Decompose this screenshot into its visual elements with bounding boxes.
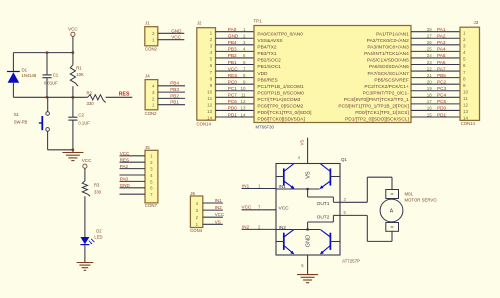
wire J6 IN2 — [203, 205, 223, 210]
node RES — [119, 92, 130, 98]
svg-text:A: A — [390, 209, 394, 215]
wire MCU-J3 PA4 pin 25 — [411, 47, 460, 52]
wire MCU-J3 PA5 pin 24 — [411, 53, 460, 58]
svg-text:PB3: PB3 — [228, 47, 237, 52]
svg-text:0.1UF: 0.1UF — [78, 121, 90, 126]
wire J2-MCU PB1 pin 6 — [216, 60, 255, 65]
svg-text:PC4/[INT0][PINT]TCK2/TP2_1: PC4/[INT0][PINT]TCK2/TP2_1 — [344, 97, 409, 103]
svg-text:12: 12 — [240, 99, 246, 104]
capacitor C1 0.01UF — [42, 53, 58, 98]
svg-text:PC4: PC4 — [437, 93, 447, 98]
wire R3 to LED — [84, 196, 86, 237]
svg-text:J4: J4 — [145, 74, 150, 79]
svg-text:IN2: IN2 — [242, 224, 250, 229]
svg-text:PA0/C0X/TP0_0/AN0: PA0/C0X/TP0_0/AN0 — [257, 31, 303, 37]
svg-text:R2: R2 — [87, 90, 93, 95]
switch S1 SW-PB — [14, 97, 73, 150]
svg-text:10K: 10K — [76, 72, 84, 77]
pin OUT2 (5) wire — [340, 210, 392, 242]
label VS inside — [306, 171, 312, 179]
connector J2 CON14 — [197, 21, 216, 127]
wire J2-MCU PC7 pin 11 — [216, 93, 255, 98]
svg-text:PC1/TP1B_1/SCOM1: PC1/TP1B_1/SCOM1 — [257, 84, 304, 90]
svg-text:PB1: PB1 — [228, 60, 237, 65]
svg-text:PD1/[TP2_0][SDO][SCK/SCL]: PD1/[TP2_0][SDO][SCK/SCL] — [345, 117, 409, 123]
wire CON7 pin 5 — [120, 177, 146, 182]
wire to RES — [106, 96, 133, 98]
svg-text:330: 330 — [94, 190, 102, 195]
svg-text:GND: GND — [120, 183, 131, 188]
transistor Q1b (top-right) — [320, 164, 340, 189]
ground (reset circuit) — [62, 153, 83, 161]
svg-text:D2: D2 — [96, 228, 102, 233]
svg-text:PA5/C1X/SDO/AN5: PA5/C1X/SDO/AN5 — [367, 58, 409, 64]
svg-text:12: 12 — [463, 103, 469, 108]
connector J6 CON4 — [190, 191, 203, 233]
svg-text:RES: RES — [119, 92, 130, 98]
svg-text:TP1: TP1 — [254, 18, 263, 23]
wire LED to ground — [84, 245, 86, 262]
wire J1 pin1 VCC — [158, 35, 185, 40]
svg-text:PA4/INT1/TCK1/AN4: PA4/INT1/TCK1/AN4 — [364, 51, 409, 57]
svg-text:CON7: CON7 — [145, 203, 158, 208]
svg-text:PA6/SDI/SDA/AN6: PA6/SDI/SDA/AN6 — [369, 64, 409, 70]
wire CON7 pin 1 — [120, 151, 146, 156]
pin OUT1 (3) wire — [340, 177, 392, 202]
svg-text:28: 28 — [427, 27, 433, 32]
wire top bus — [13, 52, 73, 54]
label IN2 inside — [279, 225, 287, 231]
svg-text:13: 13 — [207, 109, 213, 114]
svg-text:MT66F30: MT66F30 — [256, 125, 275, 130]
svg-text:12: 12 — [207, 103, 213, 108]
wire J2-MCU PB2 pin 5 — [216, 53, 255, 58]
svg-text:PB3: PB3 — [170, 87, 179, 92]
svg-text:PB4/TX2: PB4/TX2 — [257, 45, 277, 51]
svg-text:PA6: PA6 — [437, 60, 446, 65]
svg-text:MOTOR SERVO: MOTOR SERVO — [405, 198, 438, 203]
connector J1 CON2 — [145, 20, 158, 51]
svg-text:VDD: VDD — [257, 71, 268, 77]
pin GND (6) — [301, 255, 307, 274]
svg-text:22: 22 — [427, 66, 433, 71]
svg-text:M01: M01 — [405, 192, 414, 197]
svg-text:PD1: PD1 — [437, 112, 447, 117]
svg-text:18: 18 — [427, 93, 433, 98]
svg-text:PB2: PB2 — [170, 93, 179, 98]
svg-text:6: 6 — [463, 63, 466, 68]
svg-text:PD0: PD0 — [228, 106, 238, 111]
label OUT1 inside — [317, 201, 330, 207]
MCU TP1 MT66F30 — [254, 18, 412, 129]
wire J2-MCU PB4 pin 3 — [216, 40, 255, 45]
svg-text:17: 17 — [427, 99, 433, 104]
capacitor C2 0.1UF — [68, 97, 90, 152]
wire MCU-J3 PB5 pin 21 — [411, 73, 460, 78]
diode D1 1N4148 — [7, 53, 37, 98]
svg-text:CON2: CON2 — [145, 46, 158, 51]
wire collector join bottom — [276, 215, 340, 230]
svg-text:PC6/[TP0_0]/SCOM2: PC6/[TP0_0]/SCOM2 — [257, 104, 303, 110]
wire J2-MCU GND pin 2 — [216, 34, 255, 39]
svg-text:9: 9 — [210, 83, 213, 88]
power VCC (LED branch) — [82, 158, 92, 168]
svg-text:20: 20 — [427, 79, 433, 84]
wire MCU-J3 PC3 pin 19 — [411, 86, 460, 91]
svg-text:1N4148: 1N4148 — [22, 73, 37, 78]
svg-text:IN2: IN2 — [215, 205, 223, 210]
wire MCU-J3 PA7 pin 22 — [411, 66, 460, 71]
svg-text:LED: LED — [94, 234, 102, 239]
svg-text:VS: VS — [306, 171, 312, 179]
svg-text:VCC: VCC — [228, 66, 239, 71]
svg-text:19: 19 — [427, 86, 433, 91]
svg-text:15: 15 — [427, 112, 433, 117]
svg-text:26: 26 — [427, 40, 433, 45]
svg-text:RES: RES — [120, 158, 129, 163]
transistor Q1a (top-left) — [276, 164, 295, 189]
wire CON7 pin 6 — [120, 183, 146, 188]
svg-text:11: 11 — [207, 96, 212, 101]
resistor R1 10K — [70, 53, 84, 98]
wire J2-MCU RES pin 8 — [216, 73, 255, 78]
label GND inside — [306, 235, 312, 247]
wire VCC to R3 — [84, 168, 86, 181]
svg-text:0.01UF: 0.01UF — [44, 80, 58, 85]
svg-text:PA4: PA4 — [437, 47, 446, 52]
svg-text:PA3/INT0/C0+/AN3: PA3/INT0/C0+/AN3 — [367, 45, 409, 51]
svg-text:VS: VS — [300, 140, 305, 146]
wire MCU-J3 PA1 pin 28 — [411, 27, 460, 32]
svg-text:PC7/(TP1A)SCOM3: PC7/(TP1A)SCOM3 — [257, 97, 300, 103]
svg-text:S1: S1 — [14, 112, 20, 117]
svg-text:PC5/[INT1]TP0_1/TP1B_2/[PCK]: PC5/[INT1]TP0_1/TP1B_2/[PCK] — [338, 104, 408, 110]
wire J2-MCU PC6 pin 12 — [216, 99, 255, 104]
svg-text:PC0/TP1B_0/SCOM0: PC0/TP1B_0/SCOM0 — [257, 90, 304, 96]
resistor R2 330 — [87, 90, 106, 106]
wire J4 PB2 — [158, 93, 185, 98]
svg-text:J3: J3 — [474, 20, 479, 25]
svg-text:OUT1: OUT1 — [317, 201, 330, 207]
svg-text:PC7: PC7 — [228, 93, 238, 98]
connector J5 CON7 — [145, 145, 158, 208]
wire J2-MCU VCC pin 7 — [216, 66, 255, 71]
svg-text:14: 14 — [207, 116, 213, 121]
svg-text:PB5: PB5 — [437, 73, 446, 78]
svg-text:PC5: PC5 — [437, 99, 447, 104]
svg-text:PB0/RES: PB0/RES — [257, 77, 277, 83]
svg-text:PA2/TCK0/C0-/AN2: PA2/TCK0/C0-/AN2 — [367, 38, 409, 44]
svg-text:J1: J1 — [145, 20, 150, 25]
svg-text:PA1/TP1A/AN1: PA1/TP1A/AN1 — [376, 31, 409, 37]
wire J2-MCU PD0 pin 13 — [216, 106, 255, 111]
LED D2 — [80, 228, 102, 244]
svg-text:J5: J5 — [145, 145, 150, 150]
svg-text:PC2: PC2 — [437, 79, 447, 84]
svg-text:1: 1 — [463, 30, 466, 35]
svg-text:PA1: PA1 — [437, 27, 446, 32]
svg-text:8: 8 — [210, 76, 213, 81]
svg-text:R3: R3 — [94, 182, 100, 187]
svg-text:5: 5 — [210, 57, 213, 62]
svg-text:3: 3 — [463, 44, 466, 49]
power VCC (reset circuit) — [68, 27, 78, 53]
svg-text:VCC: VCC — [68, 27, 78, 32]
ground (H-bridge) — [297, 275, 318, 283]
junction dots — [46, 51, 74, 98]
svg-text:PB1: PB1 — [170, 100, 179, 105]
svg-text:PA2: PA2 — [437, 34, 446, 39]
label OUT2 inside — [317, 214, 330, 220]
svg-text:PA0: PA0 — [228, 27, 237, 32]
svg-text:PC1: PC1 — [228, 86, 238, 91]
svg-text:IN1: IN1 — [242, 183, 250, 188]
wire J4 PB1 — [158, 100, 185, 105]
wire MCU-J3 PC4 pin 18 — [411, 93, 460, 98]
wire J2-MCU PC0 pin 9 — [216, 79, 255, 84]
svg-text:PB4: PB4 — [228, 40, 237, 45]
wire J2-MCU PB3 pin 4 — [216, 47, 255, 52]
svg-text:10: 10 — [207, 89, 213, 94]
svg-text:PA0: PA0 — [120, 177, 129, 182]
svg-text:J6: J6 — [190, 191, 195, 196]
svg-text:9: 9 — [463, 83, 466, 88]
wire emitter join top — [276, 188, 340, 202]
svg-text:13: 13 — [463, 109, 469, 114]
svg-text:PD0/[TCK1]TP3_0/[SDO]: PD0/[TCK1]TP3_0/[SDO] — [257, 110, 311, 116]
wire CON7 pin 3 — [120, 164, 146, 169]
svg-text:CON2: CON2 — [145, 111, 158, 116]
svg-text:25: 25 — [427, 47, 433, 52]
svg-text:C1: C1 — [53, 73, 59, 78]
wire CON7 pin 4 — [120, 174, 146, 176]
wire MCU-J3 PA2 pin 27 — [411, 34, 460, 39]
svg-text:GND: GND — [171, 28, 182, 33]
svg-text:SW-PB: SW-PB — [14, 119, 28, 124]
svg-text:PC3/PINT/TP2_0/C1-: PC3/PINT/TP2_0/C1- — [363, 90, 410, 96]
svg-text:PA7: PA7 — [437, 66, 446, 71]
svg-text:7: 7 — [463, 70, 466, 75]
wire bottom bus — [13, 96, 87, 98]
svg-text:J2: J2 — [197, 21, 202, 26]
svg-text:GND: GND — [306, 235, 312, 247]
svg-text:14: 14 — [240, 112, 246, 117]
wire J1 pin2 GND — [158, 28, 185, 33]
svg-text:PA5: PA5 — [437, 53, 446, 58]
svg-text:R1: R1 — [76, 65, 82, 70]
pin IN1 (1) — [242, 183, 277, 188]
svg-text:2: 2 — [210, 37, 213, 42]
svg-text:AT7257P: AT7257P — [342, 258, 360, 263]
wire J6 IN1 — [203, 198, 223, 203]
connector J4 CON4 — [145, 74, 158, 116]
svg-text:GND: GND — [228, 34, 239, 39]
svg-text:5: 5 — [463, 57, 466, 62]
wire MCU-J3 PA6 pin 23 — [411, 60, 460, 65]
svg-text:14: 14 — [463, 116, 469, 121]
resistor R3 330 — [82, 181, 101, 196]
svg-text:1: 1 — [210, 30, 213, 35]
svg-text:4: 4 — [210, 50, 213, 55]
svg-text:VCC: VCC — [242, 205, 252, 210]
junction dot S1/C2 — [72, 149, 74, 151]
wire MCU-J3 PA3 pin 26 — [411, 40, 460, 45]
wire J6 VCC — [203, 212, 225, 217]
svg-text:VCC: VCC — [171, 35, 181, 40]
svg-text:PD0/[TCK1]TP3_1/[SCS]: PD0/[TCK1]TP3_1/[SCS] — [355, 110, 409, 116]
svg-text:IN2: IN2 — [279, 225, 287, 231]
svg-text:2: 2 — [463, 37, 466, 42]
transistor Q1d (bottom-right) — [320, 230, 340, 254]
svg-text:PB1/SOC1: PB1/SOC1 — [257, 64, 281, 70]
svg-text:PA2: PA2 — [120, 164, 129, 169]
svg-text:VCC: VCC — [279, 205, 290, 211]
svg-text:330: 330 — [87, 101, 95, 106]
svg-text:PD1: PD1 — [228, 112, 238, 117]
svg-text:27: 27 — [427, 34, 433, 39]
svg-text:VCC: VCC — [120, 151, 130, 156]
svg-text:7: 7 — [210, 70, 213, 75]
wire J2-MCU PD1 pin 14 — [216, 112, 255, 117]
svg-text:13: 13 — [240, 106, 246, 111]
svg-text:VSS&AVSS: VSS&AVSS — [257, 38, 282, 44]
connector J3 CON14 (right) — [460, 20, 480, 126]
svg-text:D1: D1 — [22, 67, 28, 72]
svg-text:C2: C2 — [78, 113, 84, 118]
svg-text:PB4: PB4 — [170, 81, 179, 86]
svg-text:IN1: IN1 — [215, 198, 223, 203]
svg-text:23: 23 — [427, 60, 433, 65]
svg-text:10: 10 — [463, 89, 469, 94]
svg-text:VCC: VCC — [215, 212, 225, 217]
svg-text:11: 11 — [463, 96, 468, 101]
svg-text:6: 6 — [210, 63, 213, 68]
svg-text:PB5/SCS/VREF: PB5/SCS/VREF — [374, 77, 408, 83]
svg-text:PC2/TCK2/PCK/C1+: PC2/TCK2/PCK/C1+ — [364, 84, 409, 90]
svg-text:PB2: PB2 — [228, 53, 237, 58]
wire J4 PB4 — [158, 81, 185, 86]
wire J4 PB3 — [158, 87, 185, 92]
pin IN2 (2) — [242, 224, 277, 229]
label VCC inside — [279, 205, 290, 211]
svg-text:24: 24 — [427, 53, 433, 58]
svg-text:PA7/SCK/SCL/AN7: PA7/SCK/SCL/AN7 — [368, 71, 410, 77]
svg-text:CON14: CON14 — [461, 121, 476, 126]
wire MCU-J3 PC2 pin 20 — [411, 79, 460, 84]
svg-text:PC3: PC3 — [437, 86, 447, 91]
pin VCC (7) — [242, 205, 277, 210]
label IN1 inside — [279, 184, 287, 190]
wire MCU-J3 PD1 pin 15 — [411, 112, 460, 117]
motor M01 MOTOR SERVO — [380, 190, 437, 232]
wire MCU-J3 PC5 pin 17 — [411, 99, 460, 104]
wire MCU-J3 PD0 pin 16 — [411, 106, 460, 111]
wire CON7 pin 2 — [120, 158, 146, 163]
svg-text:8: 8 — [463, 76, 466, 81]
svg-text:RES: RES — [228, 73, 238, 78]
motor driver Q1 AT7257P box — [276, 157, 360, 263]
ground (LED branch) — [77, 263, 94, 271]
svg-text:CON14: CON14 — [197, 121, 212, 126]
wire J6 VS — [203, 219, 223, 224]
svg-text:16: 16 — [427, 106, 433, 111]
transistor Q1c (bottom-left) — [276, 230, 294, 254]
svg-text:OUT2: OUT2 — [317, 214, 330, 220]
wire J2-MCU PC1 pin 10 — [216, 86, 255, 91]
svg-text:PC0: PC0 — [228, 79, 238, 84]
svg-text:4: 4 — [463, 50, 466, 55]
svg-text:PA3: PA3 — [437, 40, 446, 45]
svg-text:10: 10 — [240, 86, 246, 91]
wire CON7 pin 7 — [120, 193, 146, 195]
svg-text:PB2/SOC2: PB2/SOC2 — [257, 58, 281, 64]
svg-text:PD6/[TCK0][SDI/SDA]: PD6/[TCK0][SDI/SDA] — [257, 117, 304, 123]
svg-text:PD0: PD0 — [437, 106, 447, 111]
svg-text:3: 3 — [210, 44, 213, 49]
svg-text:VS: VS — [215, 219, 221, 224]
svg-text:11: 11 — [241, 93, 246, 98]
svg-text:VCC: VCC — [82, 158, 92, 163]
svg-text:PC6: PC6 — [228, 99, 238, 104]
svg-text:CON4: CON4 — [190, 228, 203, 233]
wire J2-MCU PA0 pin 1 — [216, 27, 255, 32]
svg-text:21: 21 — [427, 73, 433, 78]
svg-text:Q1: Q1 — [341, 157, 347, 162]
pin VS (4) — [298, 138, 308, 164]
svg-text:PB3/TX1: PB3/TX1 — [257, 51, 277, 57]
